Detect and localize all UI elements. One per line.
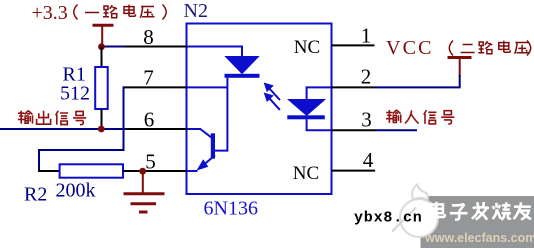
wire: power junction to pin 8 xyxy=(101,46,125,48)
wire: output signal net to pin 6 xyxy=(0,128,126,130)
LED D2 anode wire (pin 2 internal) xyxy=(307,87,331,99)
watermark gray box xyxy=(421,196,534,248)
svg-text:2: 2 xyxy=(361,65,372,89)
resistor R2 left lead xyxy=(38,170,60,172)
resistor R1 bottom lead xyxy=(101,109,103,129)
pin 8 stub xyxy=(125,46,187,48)
watermark circle logo xyxy=(392,185,438,238)
svg-text:3: 3 xyxy=(361,108,372,132)
transistor emitter with arrow (pin 5 internal) xyxy=(187,155,215,171)
power bar symbol VCC xyxy=(448,58,472,77)
net label 输出信号 (output signal) xyxy=(18,111,86,125)
svg-text:6N136: 6N136 xyxy=(204,198,258,220)
ground symbol xyxy=(124,171,165,212)
svg-text:200k: 200k xyxy=(56,180,96,202)
svg-text:512: 512 xyxy=(60,83,90,105)
svg-text:5: 5 xyxy=(145,149,156,173)
resistor R1 top lead xyxy=(101,47,103,68)
LED D2 cathode wire (pin 3 internal) xyxy=(307,119,331,130)
pin 7 stub xyxy=(124,86,187,88)
svg-text:NC: NC xyxy=(293,163,319,184)
junction at R2 / pin5 / ground xyxy=(139,168,146,175)
svg-text:6: 6 xyxy=(144,108,155,132)
resistor R2 xyxy=(60,164,123,177)
svg-text:www.elecfans.com: www.elecfans.com xyxy=(424,231,534,245)
pin 7 internal wire to base node xyxy=(187,86,227,88)
photodiode D1 xyxy=(225,57,260,78)
svg-text:ybx8.cn: ybx8.cn xyxy=(354,210,423,227)
transistor base wire (pin 6 internal) xyxy=(187,129,212,138)
pin 1 stub xyxy=(331,44,374,46)
svg-text:NC: NC xyxy=(294,37,320,58)
pin 5 stub xyxy=(123,170,187,172)
pin 4 stub xyxy=(331,170,375,172)
pin 2 stub xyxy=(331,86,376,88)
pin 3 stub xyxy=(331,129,376,131)
watermark brand 电子发烧友 xyxy=(430,202,531,220)
svg-text:8: 8 xyxy=(143,25,154,49)
LED D2 xyxy=(287,100,325,120)
junction at +3.3 / R1 / pin8 xyxy=(98,43,105,50)
junction at R1 / pin6 line xyxy=(98,126,105,133)
svg-text:+3.3: +3.3 xyxy=(32,2,68,24)
net label 输入信号 (input signal) xyxy=(386,110,454,124)
photodiode cathode / collector wire xyxy=(215,78,227,151)
photodiode D1 anode wire (pin 8 internal) xyxy=(187,47,242,57)
resistor R2 right lead to pin 5 xyxy=(123,170,145,172)
svg-text:VCC: VCC xyxy=(386,37,434,59)
svg-text:4: 4 xyxy=(363,148,374,172)
op-amp/optocoupler IC N2 6N136 body xyxy=(187,24,332,195)
pin 6 stub xyxy=(125,128,187,130)
wire: pin 2 to VCC power xyxy=(376,75,460,87)
transistor Q1 base bar xyxy=(211,133,215,158)
svg-text:1: 1 xyxy=(361,24,372,48)
resistor R1 xyxy=(95,67,108,109)
light arrows from LED to photodetector xyxy=(265,84,280,110)
power bar symbol +3.3 xyxy=(93,25,114,46)
svg-text:7: 7 xyxy=(143,66,154,90)
power label (一路电压) xyxy=(74,5,166,20)
wire: pin 3 input signal xyxy=(376,129,417,131)
power label (二路电压) xyxy=(449,41,530,56)
svg-text:R2: R2 xyxy=(24,183,47,205)
wire: pin 7 down-left to R2 xyxy=(39,87,125,171)
svg-text:N2: N2 xyxy=(184,0,208,22)
